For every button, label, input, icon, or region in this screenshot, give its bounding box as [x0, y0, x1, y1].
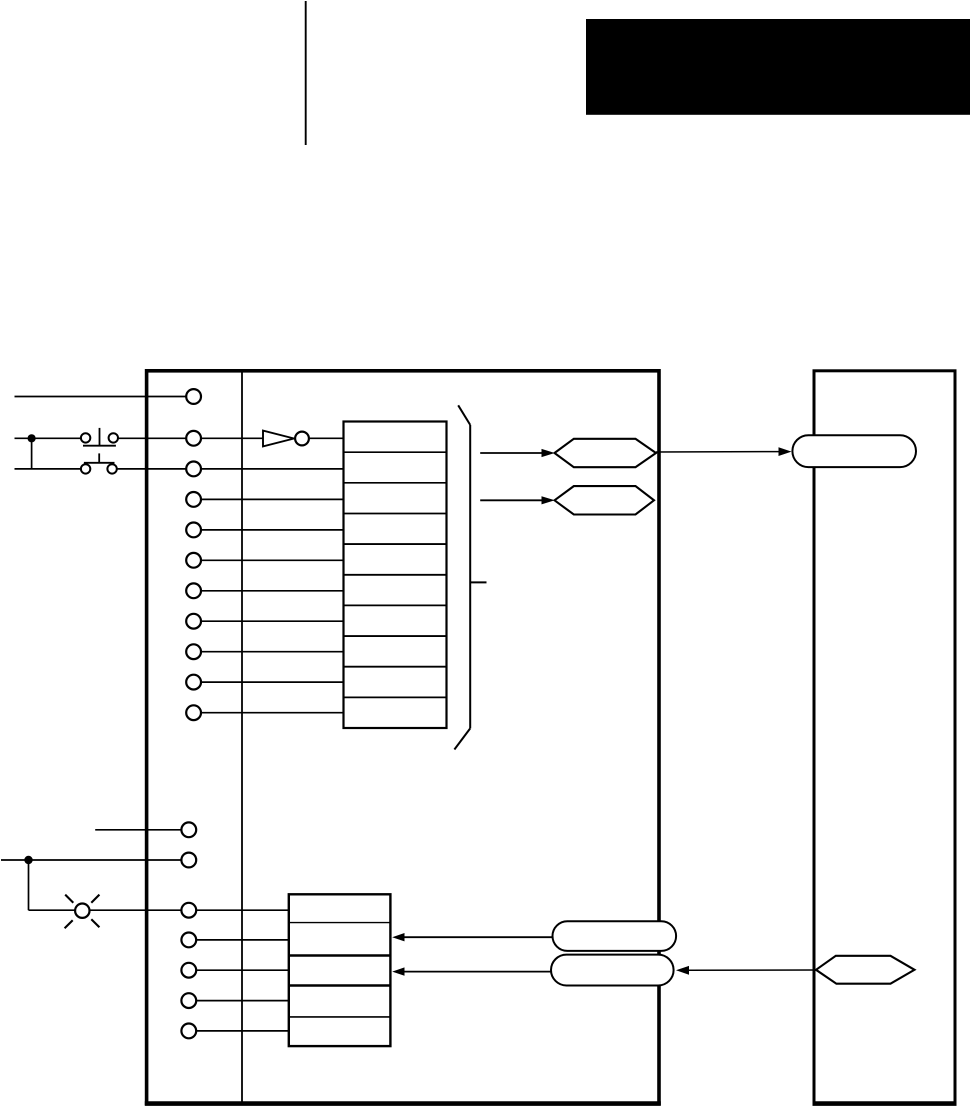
input module box: [147, 371, 659, 1104]
lower junction drop: [28, 860, 30, 910]
status hexagon 2: [555, 486, 655, 514]
lower terminal 2: [181, 903, 196, 918]
terminal 3: [186, 492, 201, 507]
wire terminal2 to table: [198, 468, 344, 470]
lower terminal 5: [181, 993, 196, 1008]
terminal 5: [186, 553, 201, 568]
terminal 1: [186, 431, 201, 446]
junction dot: [28, 434, 36, 442]
terminal 6: [186, 583, 201, 598]
wire row2 contact to terminal: [118, 437, 190, 439]
terminal 2: [186, 462, 201, 477]
processor hexagon (output energize): [816, 956, 915, 984]
terminal 10: [186, 705, 201, 720]
lower terminal 3: [181, 933, 196, 948]
output stadium 1: [553, 921, 677, 951]
wire to pilot lamp: [29, 909, 76, 911]
wire lower row2 left: [1, 859, 185, 861]
wire terminal10 to table: [198, 712, 344, 714]
processor box bottom edge: [813, 1101, 957, 1106]
lower junction dot: [24, 856, 32, 864]
wire terminal1 to inverter: [198, 437, 263, 439]
wire junction drop: [31, 438, 33, 469]
terminal 0: [186, 389, 201, 404]
wire terminal8 to table: [198, 651, 344, 653]
instruction stadium (examine input): [792, 435, 916, 467]
lower terminal 0: [181, 822, 196, 837]
lower terminal 6: [181, 1024, 196, 1039]
wire terminal9 to table: [198, 681, 344, 683]
header rule: [305, 1, 307, 145]
arrow stadium1 to table: [392, 933, 560, 941]
wire lower terminal7 to table: [193, 1030, 289, 1032]
wire lamp to terminal: [90, 909, 185, 911]
wire terminal5 to table: [198, 559, 344, 561]
terminal 9: [186, 675, 201, 690]
wire row3 contact to terminal: [117, 468, 190, 470]
terminal 8: [186, 644, 201, 659]
output image table: [289, 894, 391, 1046]
lower terminal 1: [181, 853, 196, 868]
wire inverter to table: [310, 437, 344, 439]
wire lower terminal3 to table: [193, 909, 289, 911]
pilot lamp L1: [65, 895, 100, 929]
inverter U1: [263, 431, 309, 447]
wire terminal7 to table: [198, 620, 344, 622]
wire row1 left: [15, 396, 191, 398]
wire terminal6 to table: [198, 590, 344, 592]
terminal 4: [186, 523, 201, 538]
wire terminal4 to table: [198, 529, 344, 531]
NC pushbutton PB1: [81, 428, 118, 446]
processor box: [814, 371, 955, 1104]
wire lower row1 left: [95, 829, 185, 831]
wire lower terminal6 to table: [193, 1000, 289, 1002]
arrow stadium2 to table: [392, 967, 558, 975]
status hexagon 1: [555, 439, 657, 467]
lower terminal 4: [181, 963, 196, 978]
arrow to status hexagon 1: [480, 449, 555, 457]
terminal 7: [186, 614, 201, 629]
input module box bottom edge: [145, 1101, 661, 1106]
wire processor hexagon to stadium2: [676, 966, 817, 975]
wire row3 left: [15, 468, 82, 470]
wire hexagon to instruction stadium: [656, 447, 792, 456]
terminal strip divider: [241, 372, 243, 1101]
input image table: [344, 422, 447, 729]
output stadium 2: [551, 955, 674, 986]
wire terminal3 to table: [198, 498, 344, 500]
brace: [454, 405, 486, 749]
redacted title block: [586, 19, 970, 115]
wire lower terminal4 to table: [193, 939, 289, 941]
NO pushbutton PB2: [81, 453, 117, 473]
arrow to status hexagon 2: [480, 496, 555, 504]
wire lower terminal5 to table: [193, 969, 289, 971]
wire row2 left: [15, 437, 82, 439]
